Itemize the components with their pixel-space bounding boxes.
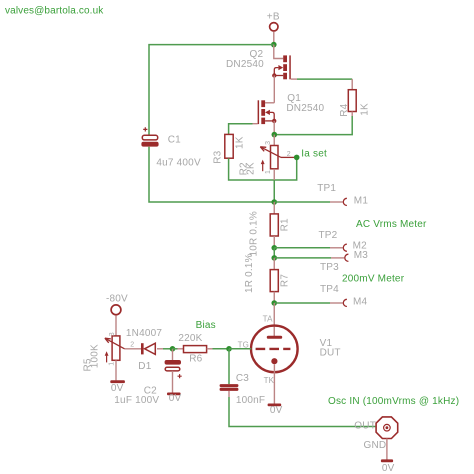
transistor Q1 — [253, 93, 325, 135]
wire Q2 gate to R4 — [291, 78, 352, 80]
svg-text:3: 3 — [109, 332, 116, 336]
wire C1 bottom to TP1 node — [149, 147, 274, 202]
wire TG node to tube grid — [229, 348, 251, 350]
svg-text:10R 0.1%: 10R 0.1% — [248, 211, 259, 257]
node Q1 source junction — [272, 132, 278, 138]
svg-text:2: 2 — [287, 151, 291, 158]
connector M1 — [274, 196, 368, 207]
svg-text:200mV Meter: 200mV Meter — [342, 273, 405, 284]
connector M4 — [274, 296, 367, 307]
node R2 wiper — [294, 155, 300, 161]
label Bias — [196, 320, 216, 331]
label Osc IN — [328, 396, 459, 407]
svg-text:R7: R7 — [280, 274, 291, 287]
resistor R3 — [213, 134, 246, 163]
svg-text:0V: 0V — [111, 383, 124, 394]
svg-text:1: 1 — [265, 170, 272, 174]
svg-text:-80V: -80V — [106, 293, 128, 304]
connector OUT — [354, 417, 397, 451]
connector M3 — [274, 250, 368, 261]
svg-text:M1: M1 — [354, 196, 369, 207]
ground R5 — [110, 380, 125, 394]
ground C2 — [167, 393, 182, 404]
wire pot bottom to TP1 node — [273, 180, 275, 202]
svg-text:3: 3 — [265, 141, 272, 145]
wire R4 bottom to Q1 source node — [274, 116, 352, 135]
wire R5 wiper to D1 — [125, 348, 142, 350]
svg-text:0V: 0V — [270, 405, 283, 416]
capacitor C3 — [220, 373, 266, 406]
svg-text:1K: 1K — [235, 136, 246, 149]
wire TG node down to C3 — [228, 349, 230, 384]
wire D1 to bias node — [163, 348, 173, 350]
svg-text:+B: +B — [267, 12, 280, 23]
transistor Q2 — [226, 45, 291, 103]
label TP2 — [319, 230, 338, 241]
node TG junction — [226, 346, 232, 352]
svg-text:valves@bartola.co.uk: valves@bartola.co.uk — [5, 5, 104, 16]
potentiometer R5 — [83, 332, 135, 380]
svg-text:R4: R4 — [339, 103, 350, 116]
svg-text:AC Vrms Meter: AC Vrms Meter — [356, 219, 427, 230]
svg-text:R1: R1 — [280, 218, 291, 231]
svg-text:TP1: TP1 — [317, 183, 336, 194]
ground OUT — [381, 439, 395, 474]
wire C3 to OUT connector — [229, 397, 375, 427]
node +B junction — [271, 42, 277, 48]
svg-text:M4: M4 — [353, 296, 368, 307]
svg-text:TA: TA — [263, 315, 273, 324]
svg-text:220K: 220K — [178, 333, 202, 344]
svg-text:1: 1 — [109, 362, 116, 366]
title text — [5, 5, 104, 16]
svg-text:1N4007: 1N4007 — [126, 328, 162, 339]
label AC Vrms Meter — [356, 219, 427, 230]
label TP1 — [317, 183, 336, 194]
wire M2 to M3 node — [273, 248, 275, 258]
svg-text:OUT: OUT — [354, 420, 376, 431]
wire R6 to TG node — [213, 348, 230, 350]
supply -80V — [106, 293, 128, 336]
svg-text:0V: 0V — [169, 393, 182, 404]
node M4 junction — [271, 300, 277, 306]
svg-text:DN2540: DN2540 — [286, 103, 324, 114]
node M3 junction — [271, 255, 277, 261]
svg-text:1R 0.1%: 1R 0.1% — [244, 253, 255, 293]
svg-text:2: 2 — [130, 341, 134, 348]
resistor R1 — [248, 202, 290, 257]
resistor R7 — [244, 253, 291, 303]
resistor R6 — [173, 333, 213, 364]
svg-text:TP2: TP2 — [319, 230, 338, 241]
resistor R4 — [339, 79, 371, 117]
svg-text:100nF: 100nF — [236, 395, 265, 406]
capacitor C2 — [114, 349, 181, 406]
svg-text:DUT: DUT — [320, 348, 341, 359]
svg-text:Osc IN (100mVrms @ 1kHz): Osc IN (100mVrms @ 1kHz) — [328, 396, 459, 407]
svg-text:0V: 0V — [382, 463, 395, 474]
potentiometer R2 — [238, 135, 296, 180]
svg-text:2K: 2K — [246, 162, 257, 175]
label 200mV Meter — [342, 273, 405, 284]
svg-text:DN2540: DN2540 — [226, 59, 264, 70]
svg-text:Bias: Bias — [196, 320, 216, 331]
tube V1 — [238, 303, 341, 385]
svg-text:C3: C3 — [236, 373, 249, 384]
wire R3 bottom to pot net — [229, 157, 297, 180]
svg-text:R6: R6 — [189, 354, 202, 365]
svg-text:100K: 100K — [89, 344, 100, 368]
svg-text:4u7 400V: 4u7 400V — [156, 158, 201, 169]
wire Q1 gate to R3 top — [229, 124, 253, 135]
svg-text:TK: TK — [264, 376, 275, 385]
connector M2 — [274, 241, 367, 252]
label Ia set — [301, 149, 327, 160]
svg-text:TP4: TP4 — [320, 284, 339, 295]
svg-text:R3: R3 — [213, 150, 224, 163]
svg-text:1uF 100V: 1uF 100V — [114, 395, 159, 406]
label TP4 — [320, 284, 339, 295]
ground TK — [268, 364, 283, 416]
label TP3 — [320, 262, 339, 273]
supply +B — [267, 12, 280, 45]
svg-text:D1: D1 — [138, 361, 151, 372]
svg-text:Ia set: Ia set — [301, 149, 327, 160]
wire +B to C1 top — [149, 45, 274, 136]
svg-text:TP3: TP3 — [320, 262, 339, 273]
svg-text:1K: 1K — [360, 103, 371, 116]
diode D1 — [126, 328, 163, 372]
svg-text:C1: C1 — [168, 135, 181, 146]
node bias junction — [170, 346, 176, 352]
node M2 junction — [271, 245, 277, 251]
capacitor C1 — [141, 127, 201, 168]
svg-text:M3: M3 — [354, 250, 369, 261]
svg-text:GND: GND — [364, 440, 387, 451]
node TP1 junction — [271, 199, 277, 205]
